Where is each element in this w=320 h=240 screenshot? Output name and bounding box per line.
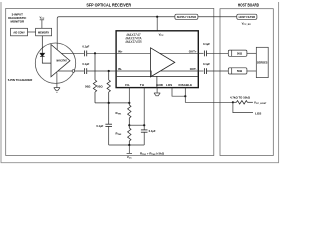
svg-text:0.1µF: 0.1µF [203, 42, 210, 46]
monitor block MEMORY [36, 28, 52, 36]
wire C1 to IN+ [87, 52, 116, 54]
wire IN+ from TIA [61, 52, 84, 54]
outer figure frame [1, 2, 279, 163]
svg-text:LOS: LOS [166, 83, 172, 87]
label U1 part numbers [125, 33, 142, 44]
supply rail wire [59, 16, 175, 18]
svg-text:GND: GND [156, 83, 163, 87]
node RTH junction [128, 124, 130, 126]
svg-text:5-PIN TO-HEADER: 5-PIN TO-HEADER [8, 78, 33, 82]
Vcc supply tap bottom [127, 145, 132, 153]
svg-text:MAX3747B: MAX3747B [125, 40, 142, 44]
svg-text:FIL: FIL [125, 83, 130, 87]
terminator 50 ohm top [228, 50, 247, 56]
node IN+ termination [94, 52, 96, 54]
svg-text:IN-: IN- [118, 67, 122, 71]
node LOS host [232, 101, 234, 103]
svg-text:0.1µF: 0.1µF [82, 45, 89, 49]
host board box [220, 9, 273, 156]
svg-text:MAX3745: MAX3745 [56, 59, 67, 62]
TIA preamp triangle U-TIA [51, 45, 70, 77]
wire IN- internal [116, 71, 151, 77]
capacitor C1 0.1uF [85, 51, 87, 57]
Vcc supply tap above MEMORY [40, 20, 44, 29]
wire OUT- [198, 70, 203, 72]
ROSA 5-pin TO header circle [35, 43, 75, 83]
svg-text:50Ω: 50Ω [237, 69, 243, 73]
svg-text:DISABLE: DISABLE [179, 83, 193, 87]
monitor block A/D [11, 28, 28, 36]
capacitor C5 0.1uF [204, 51, 206, 57]
capacitor C2 0.1uF [85, 68, 87, 74]
SERDES block [256, 47, 268, 77]
resistor RTH1 [128, 103, 131, 125]
inverting output bubble [72, 70, 75, 73]
resistor R1 50 ohm [93, 53, 96, 103]
wire C6 to 50 ohm [207, 70, 229, 72]
capacitor C4 0.1uF [141, 125, 148, 145]
HOST FILTER block [237, 14, 257, 19]
node IN- termination [108, 70, 110, 72]
wire OUT internal [160, 52, 199, 54]
wire between monitor blocks [28, 31, 36, 33]
svg-text:IN+: IN+ [118, 50, 123, 54]
wire TH pin [143, 88, 145, 126]
node rail/Vcc [128, 144, 130, 146]
wire FIL pin [128, 88, 130, 103]
svg-text:50Ω: 50Ω [237, 51, 243, 55]
node bus/FIL [128, 102, 130, 104]
wire junction to TH column [129, 124, 144, 126]
internal divider [117, 75, 198, 77]
node bus/C3 [108, 102, 110, 104]
wire termination bus [95, 102, 129, 104]
svg-text:OUT+: OUT+ [189, 49, 197, 53]
wire C2 to IN- [87, 70, 116, 72]
svg-text:LOS: LOS [255, 111, 261, 115]
svg-text:0.1µF: 0.1µF [149, 129, 156, 133]
wire C5 to 50 ohm [207, 52, 229, 54]
wire IN+ internal [116, 52, 150, 54]
wire IN- from TIA [58, 70, 84, 72]
amp triangle inside U1 [151, 48, 175, 77]
capacitor C3 0.1uF [105, 103, 112, 145]
terminator 50 ohm bottom [228, 68, 247, 74]
wire TIA Vcc to supply rail [57, 17, 59, 50]
wire LOS pin [172, 88, 185, 97]
node supply/Vcc junction [156, 16, 158, 18]
resistor R3 pull-up 4.7k-10k [233, 101, 253, 104]
svg-text:TH: TH [140, 83, 144, 87]
label 3-INPUT DIAGNOSTIC MONITOR [8, 12, 27, 23]
svg-text:4.7kΩ TO 10kΩ: 4.7kΩ TO 10kΩ [230, 96, 251, 100]
svg-text:50Ω: 50Ω [85, 84, 91, 88]
svg-text:HOST FILTER: HOST FILTER [239, 15, 256, 19]
capacitor C6 0.1uF [204, 68, 206, 74]
wire OUT+ [198, 52, 203, 54]
svg-text:SFP OPTICAL RECEIVER: SFP OPTICAL RECEIVER [86, 2, 131, 8]
svg-text:MONITOR: MONITOR [10, 20, 25, 24]
ground chip [154, 93, 160, 96]
svg-text:SERDES: SERDES [257, 60, 268, 64]
wire DISABLE to host [185, 88, 233, 103]
SUPPLY FILTER block [175, 14, 198, 19]
wire bottom rail [109, 144, 145, 146]
resistor RTH2 [128, 125, 131, 145]
wire LOS output [233, 102, 253, 112]
svg-text:OUT-: OUT- [190, 67, 197, 71]
svg-text:50Ω: 50Ω [97, 84, 103, 88]
node TH column [143, 124, 145, 126]
wire Vcc pin [156, 17, 158, 31]
node LOS/DISABLE [184, 95, 186, 97]
wire to SERDES [247, 70, 256, 72]
supply rail to host [198, 16, 237, 18]
svg-text:HOST BOARD: HOST BOARD [238, 2, 259, 8]
svg-text:MEMORY: MEMORY [38, 32, 49, 35]
svg-text:0.1µF: 0.1µF [82, 62, 89, 66]
wire GND pin [156, 88, 158, 93]
resistor R2 50 ohm [107, 71, 110, 103]
svg-text:0.1µF: 0.1µF [96, 124, 103, 128]
wire to SERDES [247, 52, 256, 54]
svg-text:A/D CONV: A/D CONV [13, 32, 25, 35]
limiting amplifier U1 MAX3747 [116, 31, 198, 88]
svg-text:SUPPLY FILTER: SUPPLY FILTER [177, 15, 197, 19]
svg-text:0.1µF: 0.1µF [203, 62, 210, 66]
ROSA ground [54, 73, 60, 93]
SFP module box [6, 8, 214, 155]
photodiode D1 [40, 36, 51, 63]
